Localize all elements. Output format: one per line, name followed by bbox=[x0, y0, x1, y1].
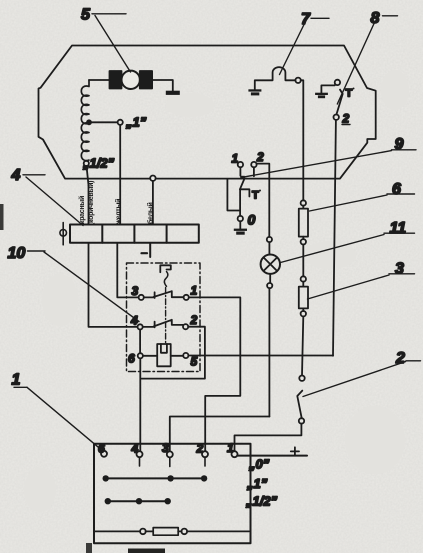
label 1 bbox=[12, 372, 104, 452]
wire relay pin1 to bottom switch pin2 bbox=[189, 297, 241, 450]
label 5 bbox=[81, 7, 131, 73]
bottom switch box 1 bbox=[94, 444, 251, 544]
svg-text:„1”: „1” bbox=[125, 115, 147, 130]
svg-text:3: 3 bbox=[162, 441, 169, 455]
label 11 bbox=[281, 220, 415, 263]
terminal on housing edge (white wire) bbox=[150, 176, 155, 181]
label 3 bbox=[308, 261, 415, 300]
wire relay pin2 to pin6 net bbox=[142, 327, 205, 379]
wire lamp down to node at bottom row bbox=[268, 288, 270, 416]
svg-text:10: 10 bbox=[8, 245, 26, 262]
svg-text:3: 3 bbox=[395, 261, 404, 278]
bottom pin 2 bbox=[202, 451, 208, 457]
bottom pin 3 bbox=[167, 451, 173, 457]
plus supply wire bbox=[238, 455, 308, 457]
connector block 4 bbox=[70, 225, 199, 243]
svg-text:2: 2 bbox=[342, 112, 350, 126]
wire motor right brush to ground bbox=[152, 80, 173, 91]
bottom pin 6 bbox=[101, 451, 107, 457]
wire bbox=[302, 237, 304, 240]
svg-text:2: 2 bbox=[256, 150, 264, 164]
wire switch8 pin2 down to relay-5 line bbox=[333, 120, 336, 356]
wire (yellow) terminal 1 to connector bbox=[119, 125, 121, 225]
contact bar row 2 bbox=[105, 498, 171, 504]
label 2 (switch) bbox=[303, 350, 421, 397]
terminal above fuse 6 bbox=[301, 200, 306, 205]
wire bottom switch pin3 to lamp node bbox=[170, 417, 270, 451]
terminal "1/2" bbox=[84, 161, 89, 166]
wire contact 7 down to fuse 6 bbox=[301, 80, 304, 200]
relay pin 2 bbox=[183, 324, 188, 329]
wire relay pin6 to bottom switch pin4 bbox=[139, 358, 141, 450]
relay pin 6 bbox=[138, 353, 143, 358]
svg-text:(коричневый): (коричневый) bbox=[87, 181, 95, 225]
terminal below lamp bbox=[267, 283, 272, 288]
wire coil to pin5 bbox=[171, 355, 184, 357]
svg-text:1: 1 bbox=[12, 372, 21, 389]
relay pin 4 bbox=[138, 324, 143, 329]
minus polarity mark bbox=[142, 252, 148, 254]
switch 8 (thermal) bbox=[315, 80, 343, 120]
wire fuse 3 to switch 2 bbox=[302, 316, 303, 375]
svg-text:„0”: „0” bbox=[248, 457, 270, 472]
pin 2 label (switch 8) bbox=[342, 112, 351, 126]
svg-text:0: 0 bbox=[248, 212, 256, 228]
svg-text:2: 2 bbox=[190, 313, 198, 327]
motor 5 (armature with brushes) bbox=[110, 71, 153, 89]
bottom pin stubs bbox=[140, 457, 206, 466]
wire bottom switch pin1 to switch 2 bbox=[235, 424, 302, 451]
wire bbox=[302, 282, 304, 287]
svg-text:2: 2 bbox=[196, 442, 204, 456]
wire relay pin5 to switch8 line bbox=[188, 355, 333, 357]
wire switch9 pin2 to lamp line bbox=[257, 164, 270, 237]
svg-text:„1”: „1” bbox=[246, 476, 268, 491]
bottom pin 1 bbox=[232, 451, 238, 457]
wire (white) to connector bbox=[152, 181, 154, 225]
plus sign bbox=[291, 447, 299, 455]
svg-text:5: 5 bbox=[191, 355, 198, 369]
wire (red) terminal 1/2 to connector bbox=[87, 166, 89, 225]
lamp 11 bbox=[261, 255, 280, 274]
svg-text:6: 6 bbox=[392, 181, 401, 198]
wire connector to relay pin3 bbox=[117, 243, 138, 297]
label 8 bbox=[337, 10, 397, 104]
svg-text:белый: белый bbox=[147, 203, 155, 224]
wire bbox=[302, 245, 304, 277]
svg-text:5: 5 bbox=[81, 7, 91, 24]
wiper motor housing outline bbox=[39, 46, 376, 179]
svg-text:11: 11 bbox=[390, 220, 407, 237]
svg-text:„1/2”: „1/2” bbox=[82, 156, 115, 171]
mounting screw at connector bbox=[62, 223, 64, 245]
svg-text:1: 1 bbox=[191, 284, 198, 298]
terminal "1" bbox=[118, 120, 123, 125]
svg-text:красный: красный bbox=[78, 196, 86, 224]
relay pin 3 bbox=[139, 295, 144, 300]
T mark (switch 9) bbox=[252, 190, 261, 202]
relay pin 1 bbox=[184, 295, 189, 300]
bottom pin 4 bbox=[137, 451, 143, 457]
terminal above lamp bbox=[267, 237, 272, 242]
svg-text:Т: Т bbox=[346, 88, 353, 100]
wire bbox=[302, 206, 304, 209]
svg-text:4: 4 bbox=[131, 442, 139, 456]
label 9 bbox=[243, 136, 416, 177]
internal fuse row bbox=[95, 528, 249, 536]
relay contact 4-2 bbox=[143, 320, 183, 328]
svg-text:3: 3 bbox=[132, 284, 139, 298]
svg-text:Т: Т bbox=[252, 190, 259, 202]
svg-text:„1/2”: „1/2” bbox=[245, 494, 278, 509]
wire relay pin4 to pin6 bbox=[139, 330, 141, 354]
svg-text:6: 6 bbox=[128, 352, 135, 366]
T mark (switch 8) bbox=[346, 88, 355, 100]
relay contact 3-1 bbox=[144, 291, 184, 298]
relay actuator link bbox=[164, 272, 168, 287]
label 7 bbox=[280, 11, 330, 75]
wire colour label (red/brown) bbox=[78, 181, 95, 225]
wire connector to relay pin4 bbox=[89, 243, 138, 327]
relay 10 dashed box bbox=[127, 263, 201, 372]
thermal contact 7 bbox=[248, 67, 300, 95]
terminal below fuse 3 bbox=[301, 311, 306, 316]
terminal below fuse 6 bbox=[301, 239, 306, 244]
svg-text:7: 7 bbox=[301, 11, 311, 28]
svg-text:желтый: желтый bbox=[115, 199, 123, 225]
field coil (inductor) bbox=[81, 80, 89, 161]
contact bar row 1 bbox=[103, 475, 208, 481]
junction (coil tap) bbox=[86, 119, 92, 125]
wire housing edge to switch 9 common bbox=[227, 179, 239, 211]
label 6 bbox=[310, 181, 415, 211]
fuse 6 bbox=[299, 209, 308, 237]
wire tap to terminal 1 bbox=[89, 121, 118, 123]
label 4 bbox=[11, 167, 84, 226]
svg-text:8: 8 bbox=[371, 10, 380, 27]
switch 2 (manual) bbox=[297, 376, 304, 424]
relay latch hook bbox=[160, 265, 171, 272]
fuse 3 bbox=[299, 287, 308, 309]
ignition switch 9 bbox=[234, 162, 257, 235]
mechanical link (dash-dot) bbox=[165, 288, 167, 345]
wire bbox=[302, 308, 304, 311]
terminal above fuse 3 bbox=[301, 276, 306, 281]
wire motor left brush to coil bbox=[89, 79, 110, 81]
wire pin6 to coil bbox=[143, 355, 157, 357]
wire bbox=[268, 242, 270, 255]
minus wire stub from connector bbox=[149, 243, 151, 257]
svg-text:1: 1 bbox=[227, 441, 234, 455]
relay pin 5 bbox=[183, 353, 188, 358]
wire bbox=[269, 274, 271, 283]
svg-text:4: 4 bbox=[11, 167, 21, 184]
relay coil bbox=[157, 344, 171, 366]
label 10 bbox=[8, 245, 140, 322]
svg-text:1: 1 bbox=[232, 152, 239, 166]
ground (motor) bbox=[166, 91, 180, 95]
